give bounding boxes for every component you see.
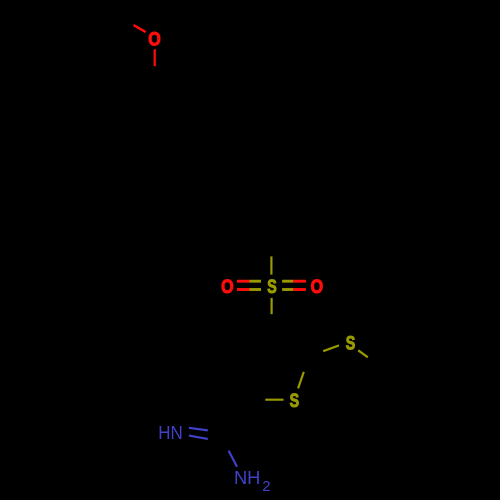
wire: bond S-CH3 (methylthio, S half) [358, 350, 368, 357]
wire: bond C2-S (methylthio, S half) [323, 345, 339, 351]
svg-text:O: O [221, 277, 234, 298]
wire: C=N double bond lower line (N half) [189, 436, 208, 439]
wire: S=O left double bond lower line red half [237, 288, 249, 291]
wire: S=O left double bond upper line red half [237, 280, 249, 283]
wire: bond C-NH2 (N half, diagonal) [229, 451, 237, 467]
wire: S=O left double bond lower line olive half [249, 288, 261, 291]
svg-text:S: S [290, 391, 300, 412]
wire: bond S-C (sulfonyl lower, S half) [271, 298, 273, 314]
svg-text:S: S [267, 277, 277, 298]
svg-text:NH: NH [234, 467, 261, 488]
svg-text:2: 2 [262, 478, 270, 495]
wire: S=O left double bond upper line olive half [249, 280, 261, 283]
svg-text:S: S [346, 334, 356, 355]
wire: bond O-C (methoxy to ring, O half) [154, 49, 156, 66]
wire: ring bond S1-C5 (S half, horizontal) [265, 399, 283, 401]
wire: C=N double bond upper line (N half) [189, 428, 208, 431]
svg-text:HN: HN [158, 422, 183, 443]
wire: ring bond S1-C2 (S half, diagonal) [298, 372, 304, 389]
wire: S=O right double bond lower line red half [293, 288, 306, 291]
wire: S=O right double bond upper line red half [293, 280, 306, 283]
svg-text:O: O [311, 277, 324, 298]
wire: bond C-S (sulfonyl upper, S half) [270, 256, 272, 274]
wire: S=O right double bond upper line olive half [282, 280, 293, 283]
wire: bond CH3-O (methoxy, O half) [134, 25, 146, 32]
svg-text:O: O [148, 30, 161, 51]
wire: S=O right double bond lower line olive half [282, 288, 293, 291]
